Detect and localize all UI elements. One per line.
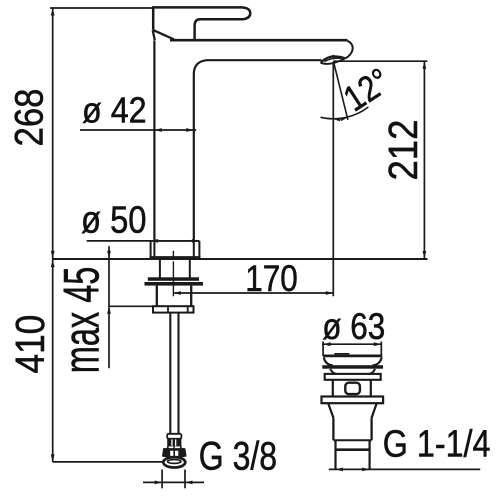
svg-text:ø 63: ø 63 [322, 306, 385, 347]
svg-text:212: 212 [381, 120, 426, 181]
svg-text:170: 170 [245, 259, 298, 300]
svg-text:G 1-1/4: G 1-1/4 [383, 423, 491, 465]
svg-text:ø 50: ø 50 [81, 198, 147, 241]
svg-text:G 3/8: G 3/8 [199, 433, 277, 478]
svg-text:ø 42: ø 42 [82, 91, 147, 131]
svg-text:410: 410 [9, 315, 54, 374]
svg-text:max 45: max 45 [53, 267, 109, 374]
svg-text:268: 268 [6, 89, 51, 147]
